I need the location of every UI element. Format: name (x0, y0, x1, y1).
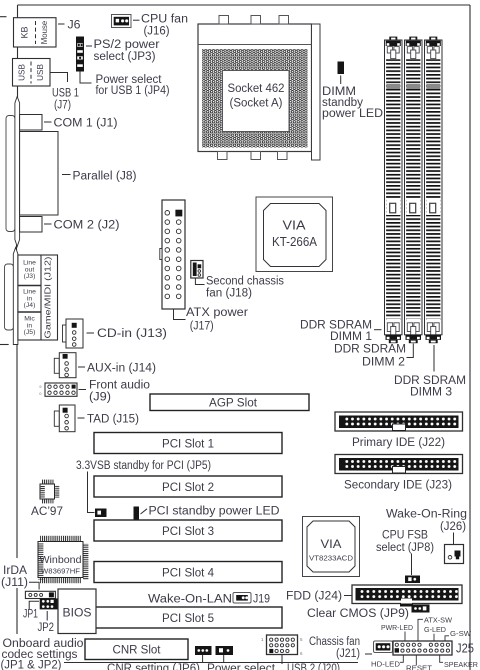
svg-text:3.3VSB standby for PCI (JP5): 3.3VSB standby for PCI (JP5) (76, 460, 211, 472)
slot: PCI Slot 1 (94, 433, 282, 454)
wire: left margin tick 2 (0, 344, 9, 346)
CPU socket bottom tabs (218, 152, 228, 160)
svg-text:ATX power: ATX power (186, 307, 248, 319)
connector J15 (TAD) (54, 411, 59, 426)
connector J13 (CD-in) (63, 325, 67, 342)
bracket bar (audio ports) (13, 248, 18, 345)
slot: PCI Slot 5 (94, 607, 282, 628)
connector J7 (dual USB) (13, 59, 51, 87)
DIMM slot 3 (429, 37, 437, 42)
wire: JP8 tick (411, 554, 413, 576)
label COM 1 (J1) (44, 121, 52, 123)
svg-text:(J21): (J21) (336, 648, 360, 660)
svg-text:CPU FSB: CPU FSB (382, 530, 428, 542)
svg-text:J6: J6 (68, 20, 81, 32)
connector J23 (Secondary IDE) (335, 455, 463, 474)
wire: board outline left edge segments (17, 5, 19, 18)
CPU socket top tabs (219, 16, 229, 25)
svg-text:AGP Slot: AGP Slot (209, 397, 258, 409)
wire: jumper ticks to bottom labels (202, 655, 204, 663)
svg-text:(J26): (J26) (440, 521, 466, 533)
CPU socket center plate (223, 71, 290, 132)
wire: board outline right edge (469, 5, 471, 670)
connector J2 (COM 2) (20, 217, 42, 233)
svg-text:Power select: Power select (207, 663, 276, 670)
svg-text:AC’97: AC’97 (31, 506, 63, 518)
connector J14 (AUX-in) (54, 358, 59, 373)
svg-text:USB 1: USB 1 (52, 88, 79, 100)
svg-text:PCI Slot 1: PCI Slot 1 (162, 439, 214, 451)
svg-text:CPU fan: CPU fan (141, 13, 188, 25)
connector shield (audio jacks) (5, 264, 14, 330)
svg-text:VT8233ACD: VT8233ACD (309, 556, 353, 563)
svg-text:DDR SDRAM: DDR SDRAM (300, 319, 372, 331)
connector J11 (IrDA) (25, 591, 55, 598)
CPU socket pin grid (202, 49, 308, 148)
chip U: AC97 codec (40, 484, 55, 499)
jumper (power select USB 2) (216, 646, 234, 655)
jumper JP6 (CNR setting) (195, 646, 212, 655)
chip: BIOS (58, 589, 96, 634)
label J6 (58, 23, 65, 25)
svg-text:Socket 462: Socket 462 (228, 83, 285, 95)
jumper JP5 (95, 509, 107, 518)
svg-text:(J4): (J4) (24, 302, 36, 309)
slot: PCI Slot 3 (94, 520, 282, 541)
jumper JP8 (405, 576, 420, 584)
svg-text:TAD (J15): TAD (J15) (87, 413, 139, 425)
svg-text:BIOS: BIOS (63, 606, 92, 620)
connector J8 (Parallel) (20, 132, 58, 216)
CPU socket top band line (198, 44, 312, 46)
svg-text:Parallel (J8): Parallel (J8) (73, 170, 137, 182)
svg-text:ATX-SW: ATX-SW (424, 616, 453, 625)
slot: CNR Slot (85, 639, 188, 660)
connector J16 (CPU fan) (112, 15, 132, 28)
svg-text:Primary IDE (J22): Primary IDE (J22) (352, 437, 445, 449)
jumpers JP1 and JP2 (40, 598, 58, 609)
svg-text:IrDA: IrDA (3, 565, 27, 577)
wire: JP1 bracket (29, 601, 39, 609)
svg-text:J19: J19 (253, 593, 270, 605)
connector J21 (chassis fan) (374, 641, 393, 653)
svg-text:(Socket A): (Socket A) (230, 98, 283, 110)
svg-text:JP1: JP1 (23, 608, 38, 620)
svg-text:VIA: VIA (283, 218, 306, 233)
svg-text:(J3): (J3) (24, 273, 36, 280)
svg-text:power LED: power LED (322, 108, 383, 120)
svg-text:Second chassis: Second chassis (206, 276, 284, 288)
svg-text:CNR setting (JP6): CNR setting (JP6) (107, 663, 200, 670)
connector J9 (front audio) (45, 383, 77, 396)
wire: J18 label bracket (195, 279, 204, 285)
connector block J3/J4/J5/J12 (audio + game port) (18, 255, 58, 340)
svg-text:Winbond: Winbond (40, 554, 82, 566)
wire: board outline top edge (18, 4, 471, 6)
svg-text:for USB 1 (JP4): for USB 1 (JP4) (96, 85, 170, 97)
svg-text:USB: USB (18, 64, 27, 81)
connector J17 (ATX power) (162, 200, 185, 309)
svg-text:USB 2 (J20): USB 2 (J20) (287, 663, 340, 670)
svg-text:PWR-LED: PWR-LED (381, 623, 414, 632)
label COM 2 (J2) (44, 223, 52, 225)
bracket bar (serial/parallel ports) (15, 97, 20, 247)
svg-text:CD-in (J13): CD-in (J13) (97, 328, 167, 340)
svg-text:(J5): (J5) (24, 329, 36, 336)
svg-text:KB: KB (20, 26, 30, 38)
svg-text:G-LED: G-LED (424, 625, 447, 634)
svg-text:PCI Slot 3: PCI Slot 3 (162, 526, 214, 538)
connector J24 (FDD) (352, 585, 462, 604)
svg-text:JP2: JP2 (38, 622, 55, 634)
wire: board outline bottom edge (64, 662, 358, 664)
label AUX-in (J14) (78, 366, 85, 368)
slot: AGP Slot (150, 394, 309, 411)
label PS/2 power select (JP3) (86, 45, 92, 47)
wire: JP2 tick (46, 611, 48, 621)
LED: PCI standby power LED (134, 507, 140, 520)
CPU socket 462 outer (198, 24, 312, 152)
label Parallel (J8) (62, 174, 71, 176)
svg-text:SPEAKER: SPEAKER (444, 660, 479, 669)
label CD-in (J13) (87, 332, 95, 334)
DIMM slot 1 (389, 37, 397, 42)
connector J1 (COM 1) (20, 115, 42, 131)
jumper JP3 (PS/2 power select) (76, 37, 84, 72)
wire: left margin tick (0, 16, 7, 18)
svg-text:G-SW: G-SW (450, 629, 472, 638)
jumper JP9 (412, 605, 430, 613)
connector J22 (Primary IDE) (335, 412, 463, 431)
LED: DIMM standby power LED (338, 62, 345, 75)
svg-text:DIMM 2: DIMM 2 (362, 356, 405, 368)
connector J6 (KB/Mouse stacked) (14, 18, 57, 47)
svg-text:(J17): (J17) (190, 320, 214, 332)
slot: PCI Slot 2 (94, 476, 282, 497)
wire: ATX power label bracket (174, 309, 186, 320)
svg-text:Wake-On-LAN: Wake-On-LAN (148, 593, 232, 605)
slot: PCI Slot 4 (94, 562, 282, 583)
connector J20 (USB 2 header) (267, 635, 298, 655)
connector J18 (second chassis fan) (191, 261, 203, 279)
wire: JP5 bracket (88, 472, 95, 513)
DIMM slot 2 (409, 37, 417, 42)
CPU socket right strip (312, 24, 321, 160)
svg-text:PCI Slot 4: PCI Slot 4 (162, 568, 215, 580)
svg-text:COM 2 (J2): COM 2 (J2) (54, 219, 120, 231)
svg-text:PCI standby power LED: PCI standby power LED (149, 506, 280, 518)
svg-text:select (JP3): select (JP3) (94, 51, 156, 63)
svg-text:DIMM 1: DIMM 1 (330, 331, 372, 343)
svg-text:Clear CMOS (JP9): Clear CMOS (JP9) (307, 608, 409, 620)
svg-text:Mouse: Mouse (40, 21, 49, 44)
chip U: VIA VT8233ACD southbridge (303, 517, 360, 577)
svg-text:(J9): (J9) (89, 391, 111, 403)
wire: IrDA bracket (29, 582, 39, 589)
label CPU fan (J16) (133, 19, 140, 21)
chip U: VIA KT-266A northbridge (256, 197, 333, 272)
svg-text:fan (J18): fan (J18) (206, 287, 252, 299)
svg-text:AUX-in (J14): AUX-in (J14) (87, 362, 156, 374)
svg-text:DDR SDRAM: DDR SDRAM (334, 343, 406, 355)
svg-text:FDD (J24): FDD (J24) (286, 591, 342, 603)
wire: USB2 label tick (281, 655, 283, 665)
svg-text:DDR SDRAM: DDR SDRAM (394, 375, 466, 387)
svg-text:(J7): (J7) (54, 100, 71, 112)
svg-text:Game/MIDI (J12): Game/MIDI (J12) (43, 256, 53, 338)
svg-text:HD-LED: HD-LED (371, 660, 401, 669)
svg-text:RESET: RESET (406, 663, 432, 670)
svg-text:VIA: VIA (321, 539, 342, 551)
svg-text:Wake-On-Ring: Wake-On-Ring (386, 509, 467, 521)
wire: USB1 label bracket (50, 73, 68, 83)
svg-text:KT-266A: KT-266A (272, 234, 317, 249)
connector J25 (front panel header) (393, 641, 452, 655)
chip U: Winbond W83697HF (38, 542, 83, 578)
label TAD (J15) (78, 417, 85, 419)
svg-text:(J11): (J11) (1, 577, 28, 589)
svg-text:J25: J25 (456, 641, 474, 655)
svg-text:Chassis fan: Chassis fan (309, 636, 360, 648)
svg-text:CNR Slot: CNR Slot (113, 645, 162, 657)
svg-text:select (JP8): select (JP8) (376, 542, 434, 554)
wire: J26 tick (453, 533, 455, 545)
svg-text:(J16): (J16) (144, 26, 170, 38)
svg-text:DIMM 3: DIMM 3 (410, 386, 452, 398)
svg-text:Secondary IDE (J23): Secondary IDE (J23) (344, 479, 452, 491)
connector J26 (Wake-On-Ring) (445, 545, 464, 564)
svg-text:USB: USB (36, 64, 45, 81)
svg-text:PCI Slot 2: PCI Slot 2 (162, 482, 214, 494)
svg-text:W83697HF: W83697HF (41, 567, 80, 576)
svg-text:COM 1 (J1): COM 1 (J1) (54, 117, 118, 129)
wire: JP4 label bracket (80, 72, 92, 84)
svg-text:Front audio: Front audio (89, 379, 150, 391)
svg-text:(JP1 & JP2): (JP1 & JP2) (1, 660, 62, 670)
connector shield (COM/parallel D-sub) (6, 116, 15, 232)
svg-text:PS/2 power: PS/2 power (94, 39, 160, 51)
svg-text:PCI Slot 5: PCI Slot 5 (162, 613, 214, 625)
connector J19 (Wake-On-LAN) (233, 593, 251, 604)
label Front audio (J9) (79, 389, 87, 391)
